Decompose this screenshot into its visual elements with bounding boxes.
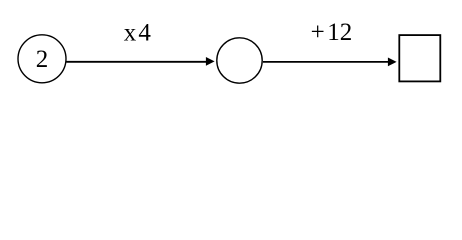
wire: line from middle circle to output square <box>263 61 388 63</box>
node A: input circle <box>18 35 66 83</box>
arrowhead into output square <box>388 58 397 67</box>
svg-text:2: 2 <box>36 46 49 73</box>
label: add operation "+ 12" <box>311 19 353 46</box>
svg-text:x: x <box>124 20 137 47</box>
label: multiply operation "x 4" <box>124 20 152 47</box>
svg-text:12: 12 <box>327 19 352 46</box>
node C: output square <box>399 35 440 81</box>
node B: middle circle (intermediate result) <box>217 38 262 83</box>
svg-text:4: 4 <box>138 20 151 47</box>
svg-text:+: + <box>311 19 325 46</box>
wire: line from input circle to middle circle <box>67 61 207 63</box>
arrowhead into middle circle <box>206 57 215 66</box>
